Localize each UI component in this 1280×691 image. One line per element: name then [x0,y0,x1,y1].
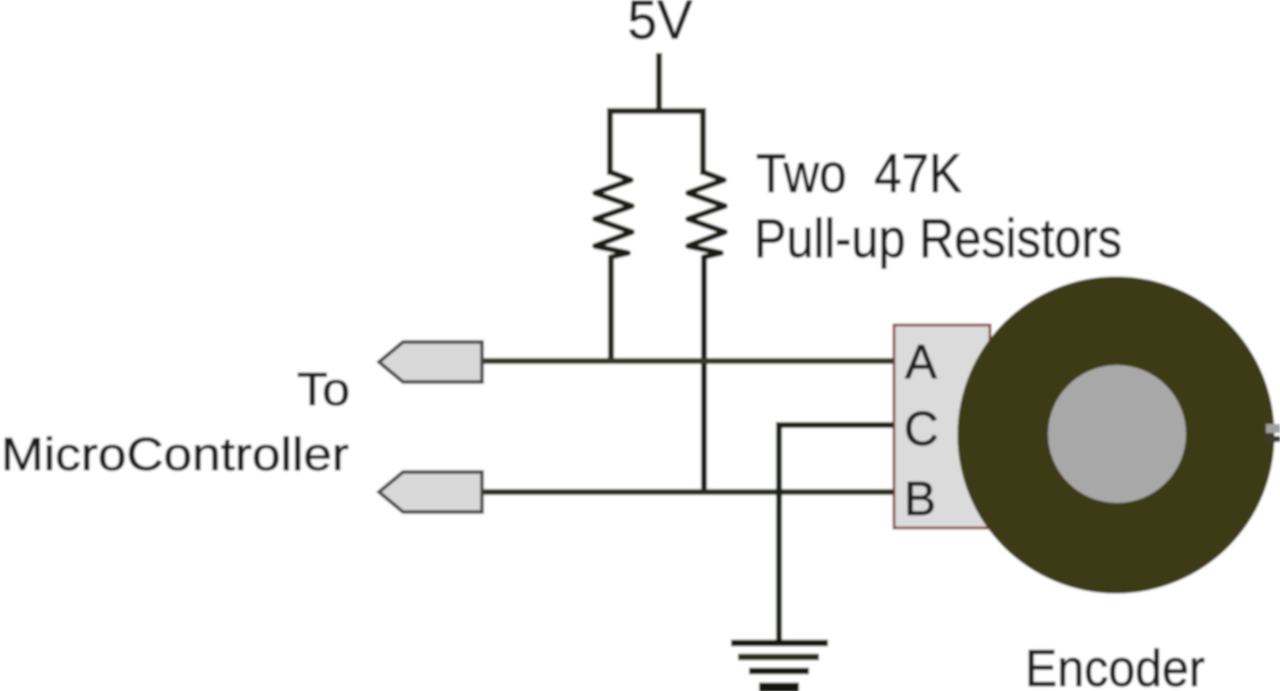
svg-text:5V: 5V [628,0,693,51]
resistor R2 (right 47K) [688,172,725,257]
svg-text:C: C [904,403,939,456]
svg-text:Encoder: Encoder [1025,640,1205,691]
resistor R1 (left 47K) [595,172,632,257]
connector arrow to microcontroller (top) [379,342,482,382]
wire top bar with branch verticals [610,111,703,175]
wire R1 lower lead to wire A [608,255,614,361]
wire 5V lead [656,53,662,111]
svg-text:A: A [905,336,937,389]
encoder shaft (inner circle) [1048,365,1186,503]
wire R2 lower lead down to wire B [701,255,707,492]
wire B horizontal [480,489,896,495]
wire A horizontal [480,358,896,364]
encoder body (outer ring) [958,277,1275,594]
encoder right stub [1266,424,1280,433]
svg-text:To: To [297,363,350,415]
connector arrow to microcontroller (bottom) [379,472,482,512]
wire C horizontal and ground vertical [779,425,896,640]
encoder pin box [894,325,990,528]
svg-text:B: B [904,473,936,526]
ground symbol [731,640,828,647]
svg-text:MicroController: MicroController [1,428,349,480]
svg-text:Two 47K: Two 47K [756,142,962,204]
svg-text:Pull-up Resistors: Pull-up Resistors [754,207,1122,269]
